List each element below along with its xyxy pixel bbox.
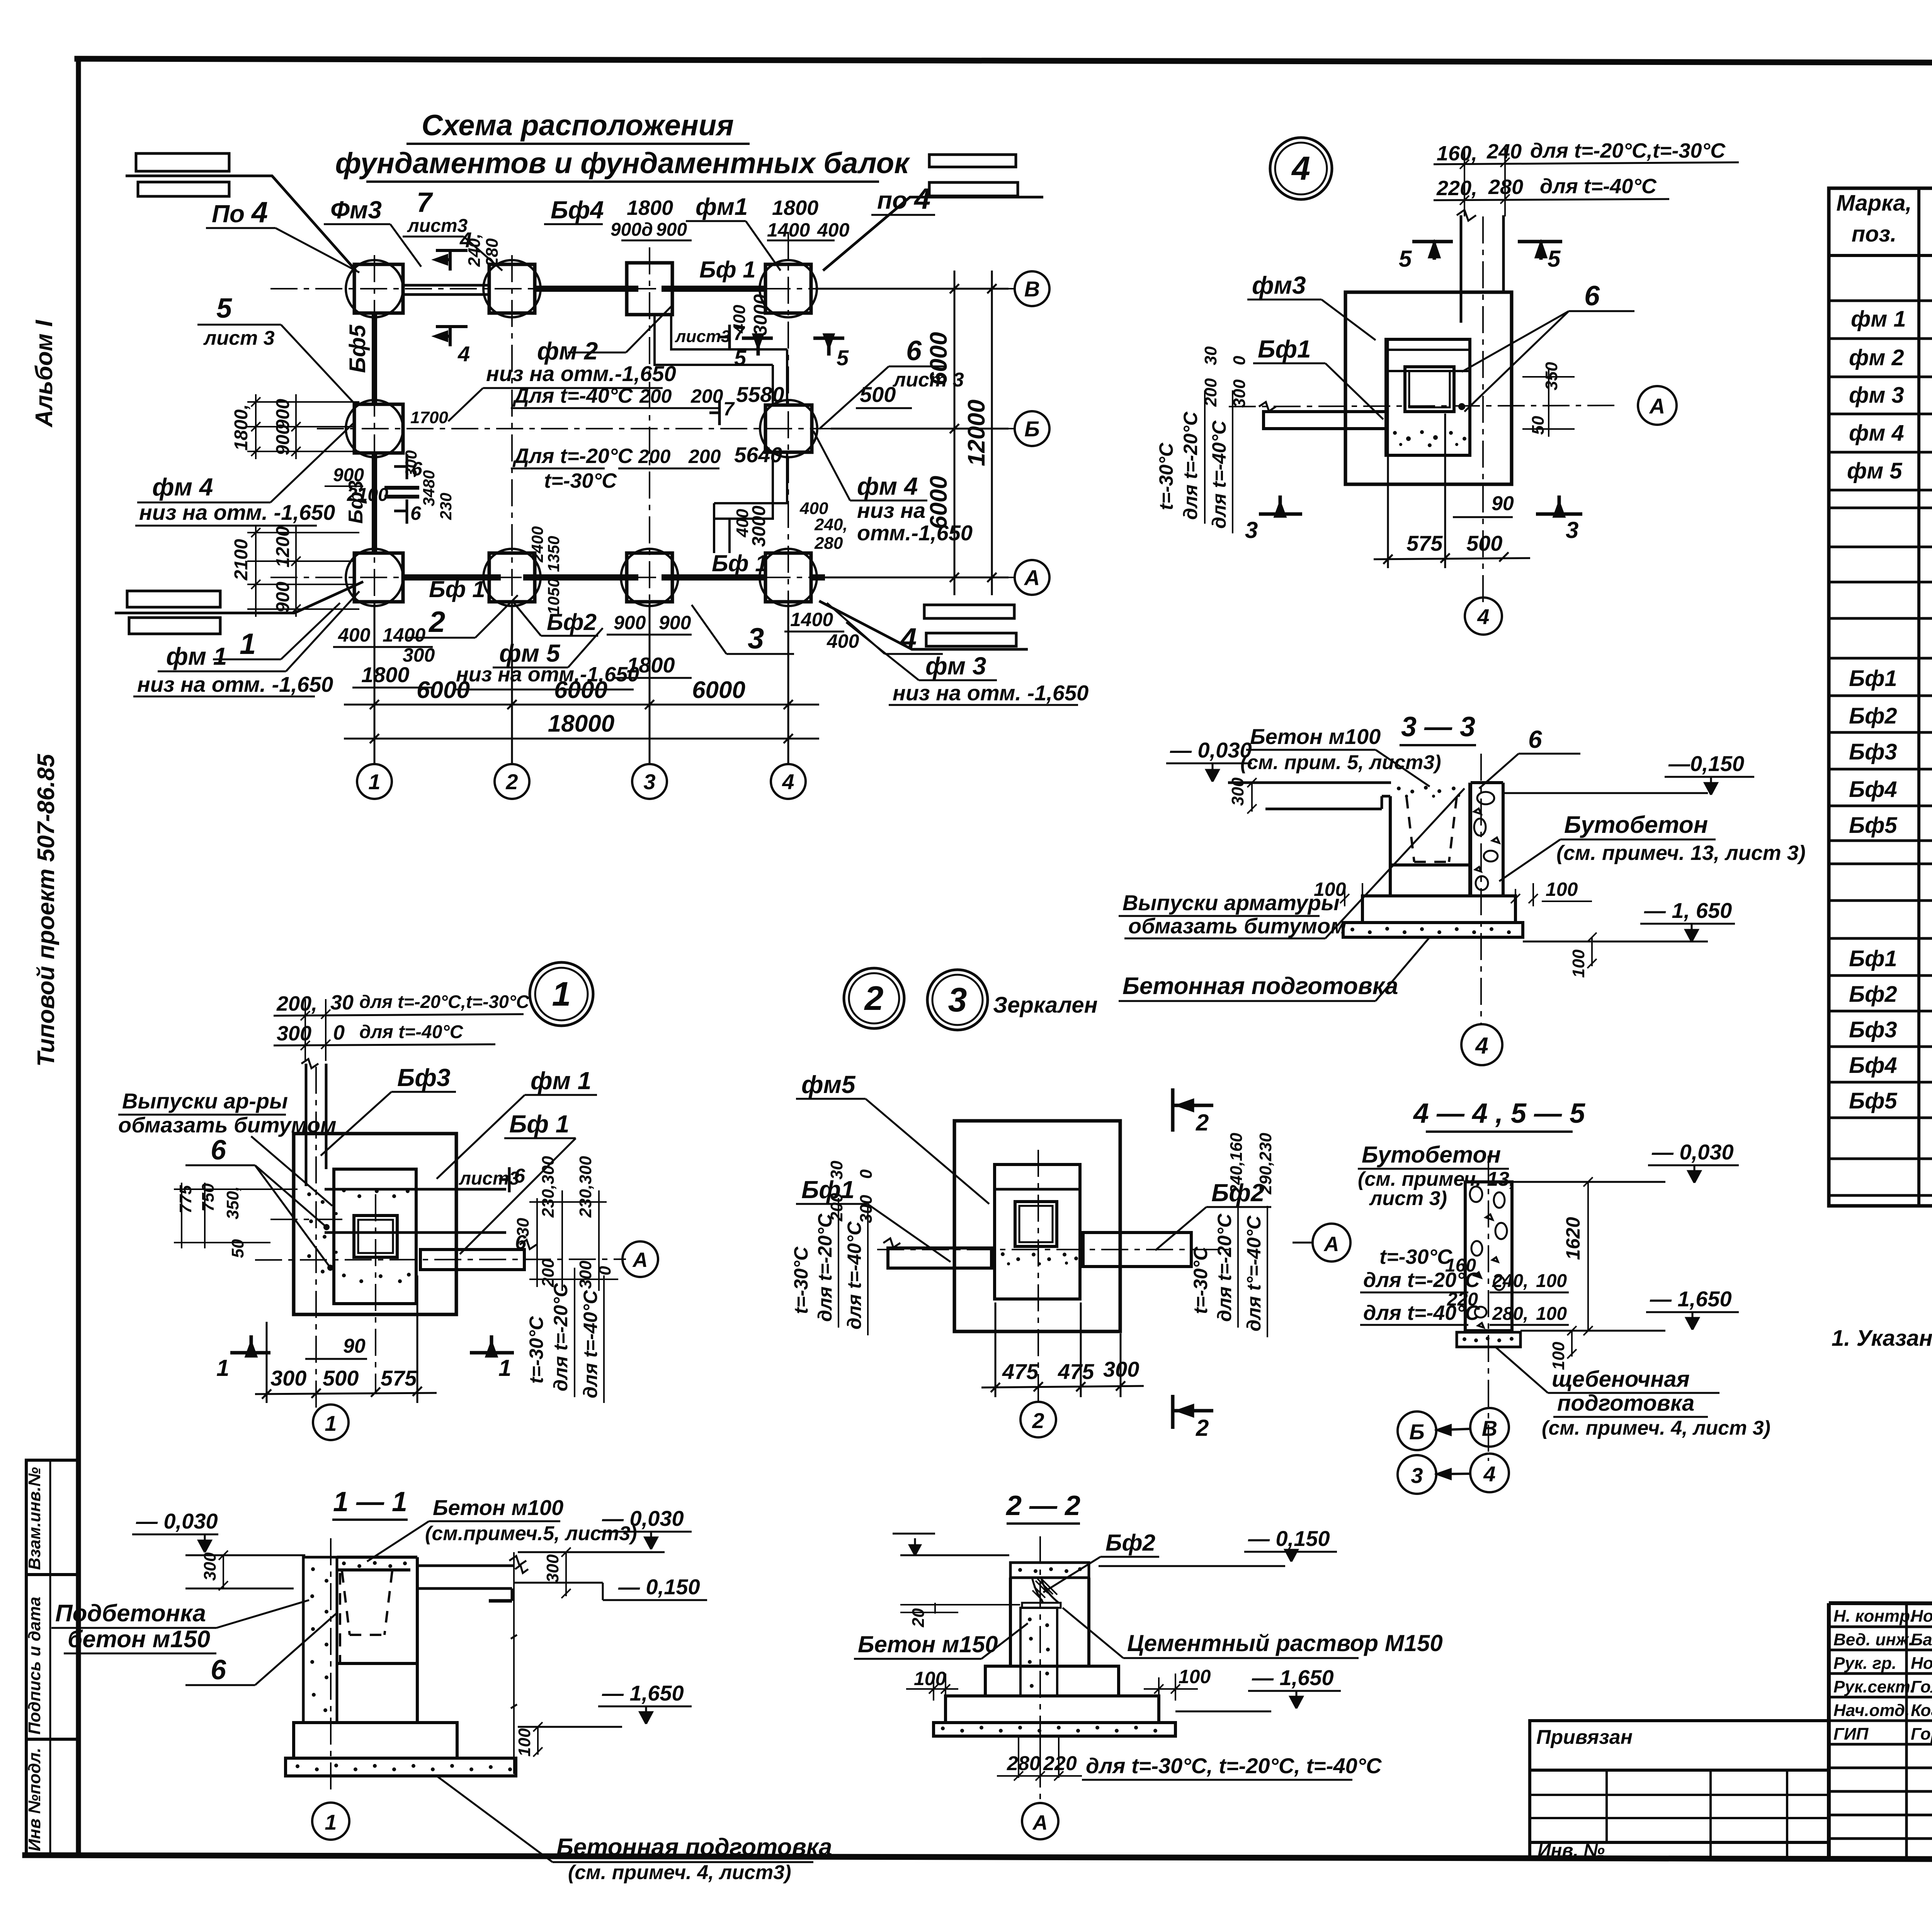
svg-text:Ногавицына: Ногавицына — [1911, 1607, 1932, 1626]
svg-text:100: 100 — [1569, 949, 1588, 978]
mini axis reference diagram — [1398, 1408, 1509, 1494]
rails symbol top-right — [823, 155, 1043, 271]
svg-text:4: 4 — [1291, 150, 1310, 187]
svg-text:4: 4 — [1475, 1033, 1488, 1059]
svg-text:220: 220 — [1043, 1752, 1077, 1775]
svg-text:для t=-20°C: для t=-20°C — [550, 1283, 571, 1391]
svg-text:Цементный раствор М150: Цементный раствор М150 — [1127, 1630, 1443, 1656]
svg-text:3: 3 — [1411, 1463, 1423, 1488]
svg-text:100: 100 — [914, 1668, 946, 1689]
svg-text:1800: 1800 — [772, 196, 818, 220]
uzel2 speckle band — [1001, 1252, 1078, 1265]
svg-text:t=-30°C: t=-30°C — [1155, 443, 1177, 510]
svg-text:для t=-20°C: для t=-20°C — [1214, 1214, 1235, 1322]
section mark 4 top — [436, 250, 468, 346]
svg-text:1800,: 1800, — [231, 404, 252, 451]
svg-text:Подпись и дата: Подпись и дата — [25, 1597, 44, 1735]
svg-text:для t=-40°C: для t=-40°C — [844, 1221, 865, 1330]
svg-text:фм 1: фм 1 — [531, 1067, 591, 1095]
svg-text:750: 750 — [199, 1183, 218, 1212]
svg-text:6: 6 — [906, 335, 922, 366]
section mark 6 pair near axis1 — [394, 454, 407, 524]
svg-text:2 — 2: 2 — 2 — [1005, 1490, 1080, 1521]
table body texts — [1847, 265, 1932, 1113]
butobeton blobs — [1474, 792, 1499, 890]
svg-text:900: 900 — [273, 582, 293, 613]
table column lines — [1917, 188, 1920, 1206]
svg-text:230: 230 — [437, 493, 455, 520]
svg-text:Бф4: Бф4 — [1849, 777, 1897, 802]
svg-text:Инв №подл.: Инв №подл. — [25, 1748, 44, 1851]
detail 4 bubble — [1270, 138, 1332, 199]
table outer border — [1829, 188, 1932, 1206]
table row lines — [1829, 300, 1932, 302]
svg-text:лист 3): лист 3) — [1369, 1187, 1447, 1210]
svg-text:Бф2: Бф2 — [1849, 703, 1897, 729]
uzel4 inner socket — [1386, 339, 1470, 455]
svg-text:5: 5 — [734, 346, 747, 370]
double tie lines between Б and А on axis1 — [384, 486, 419, 490]
svg-text:240,160: 240,160 — [1227, 1132, 1246, 1195]
svg-text:280: 280 — [1007, 1752, 1041, 1775]
svg-text:1050: 1050 — [544, 579, 563, 615]
footing pad — [1457, 1332, 1520, 1347]
svg-text:900: 900 — [333, 465, 364, 485]
svg-text:Бутобетон: Бутобетон — [1362, 1142, 1501, 1168]
svg-text:2100: 2100 — [347, 485, 388, 505]
rails symbol top-left — [126, 153, 356, 271]
svg-text:300: 300 — [543, 1554, 562, 1583]
svg-text:для t=-40°C: для t=-40°C — [1208, 421, 1230, 529]
svg-text:2: 2 — [428, 606, 445, 638]
svg-text:900: 900 — [659, 612, 691, 633]
svg-text:t=-30°C: t=-30°C — [526, 1316, 547, 1384]
svg-text:1 — 1: 1 — 1 — [333, 1486, 407, 1517]
svg-text:Выпуски ар-ры: Выпуски ар-ры — [122, 1089, 288, 1113]
svg-text:290,230: 290,230 — [1256, 1132, 1275, 1195]
svg-text:Нач.отд,: Нач.отд, — [1833, 1701, 1910, 1720]
svg-text:3: 3 — [948, 981, 967, 1019]
svg-text:А: А — [632, 1248, 648, 1272]
svg-text:В: В — [1482, 1416, 1497, 1440]
svg-text:30: 30 — [1201, 346, 1220, 365]
svg-text:лист 3: лист 3 — [892, 369, 964, 391]
section foundation body — [1343, 783, 1523, 937]
detail1 horizontal lines through — [325, 1188, 506, 1191]
svg-text:50: 50 — [1529, 416, 1548, 435]
svg-text:1800: 1800 — [361, 662, 410, 687]
svg-text:12000: 12000 — [963, 400, 990, 466]
svg-text:фм 1: фм 1 — [166, 642, 227, 670]
svg-text:— 1, 650: — 1, 650 — [1644, 898, 1732, 923]
svg-text:обмазать битумом: обмазать битумом — [118, 1113, 337, 1137]
svg-text:низ на отм. -1,650: низ на отм. -1,650 — [893, 681, 1088, 705]
detail1 column square — [354, 1216, 397, 1257]
svg-text:t=-30°C: t=-30°C — [1190, 1246, 1211, 1314]
svg-text:фм 4: фм 4 — [857, 472, 918, 500]
svg-text:Бф 1: Бф 1 — [429, 576, 485, 602]
signoff column dividers — [1905, 1603, 1908, 1859]
svg-text:t=-30°C: t=-30°C — [544, 469, 617, 492]
svg-text:7: 7 — [417, 187, 433, 218]
grid centerlines — [270, 232, 1015, 764]
svg-text:575: 575 — [1406, 531, 1443, 555]
svg-text:бетон м150: бетон м150 — [68, 1626, 210, 1653]
uzel4 bottom axis circle 4 — [1465, 598, 1502, 635]
detail1 speckle zone — [307, 1188, 411, 1283]
signoff captions — [1833, 1607, 1932, 1743]
svg-text:2: 2 — [1196, 1415, 1209, 1441]
svg-text:200: 200 — [638, 446, 671, 467]
svg-text:240: 240 — [1486, 140, 1522, 163]
beam cross-section top band — [1010, 1563, 1089, 1578]
svg-text:160: 160 — [1445, 1255, 1476, 1276]
uzel2 outer square — [954, 1121, 1120, 1331]
svg-text:Коган: Коган — [1911, 1701, 1932, 1720]
svg-text:1: 1 — [240, 628, 256, 661]
svg-text:6: 6 — [1584, 281, 1600, 312]
svg-text:900: 900 — [656, 220, 687, 240]
svg-text:Бф3: Бф3 — [397, 1064, 451, 1091]
svg-text:5580: 5580 — [736, 382, 784, 407]
svg-text:280: 280 — [483, 238, 502, 267]
svg-text:по 4: по 4 — [877, 182, 930, 215]
svg-text:Зеркален: Зеркален — [993, 993, 1098, 1018]
svg-text:300: 300 — [277, 1022, 311, 1045]
svg-text:100: 100 — [1546, 878, 1578, 900]
svg-text:1. Указания по устройству: 1. Указания по устройству фундаментов см… — [1832, 1326, 1932, 1351]
svg-text:0: 0 — [1230, 356, 1249, 365]
svg-text:6: 6 — [211, 1135, 226, 1166]
svg-text:Бф3: Бф3 — [1849, 739, 1897, 764]
svg-text:240,: 240, — [465, 233, 484, 267]
svg-text:3: 3 — [1566, 517, 1578, 543]
svg-text:лист3: лист3 — [407, 216, 468, 236]
title block outer top — [1829, 1603, 1932, 1605]
svg-text:6: 6 — [410, 502, 422, 524]
svg-text:1: 1 — [325, 1411, 337, 1435]
svg-text:для t=-20°C: для t=-20°C — [1180, 412, 1201, 520]
svg-text:Инв. №: Инв. № — [1537, 1840, 1605, 1861]
section 3-3 centerline + circle 4 — [1480, 754, 1482, 1024]
svg-text:— 1,650: — 1,650 — [1252, 1665, 1334, 1690]
svg-text:1: 1 — [325, 1810, 337, 1834]
svg-text:1: 1 — [216, 1355, 229, 1381]
left dim stack lower — [247, 525, 359, 617]
svg-text:200: 200 — [539, 1258, 558, 1287]
sec11 centerline — [330, 1538, 332, 1793]
sec11 bottom circle 1 — [312, 1803, 349, 1840]
foundation beams thick — [374, 285, 825, 577]
svg-text:Бф5: Бф5 — [345, 325, 370, 373]
butobeton column — [1471, 783, 1503, 896]
sec22 centerline — [1039, 1536, 1041, 1799]
svg-text:1400: 1400 — [767, 219, 810, 241]
svg-text:100: 100 — [1536, 1271, 1567, 1291]
svg-text:фм 4: фм 4 — [152, 473, 213, 501]
svg-text:Выпуски арматуры: Выпуски арматуры — [1122, 890, 1340, 915]
svg-text:3000: 3000 — [749, 506, 769, 547]
svg-text:200: 200 — [1201, 378, 1220, 407]
svg-text:Баранова: Баранова — [1911, 1630, 1932, 1649]
sec22 bottom circle A — [1022, 1803, 1058, 1839]
dashed stakan — [1406, 797, 1457, 862]
detail1 right axis circle A — [622, 1241, 658, 1277]
svg-text:200: 200 — [688, 446, 721, 467]
svg-text:для t=-20°C,t=-30°C: для t=-20°C,t=-30°C — [359, 991, 530, 1012]
svg-text:6: 6 — [211, 1655, 226, 1685]
svg-text:900: 900 — [614, 612, 646, 633]
svg-text:Ногавицына: Ногавицына — [1911, 1654, 1932, 1673]
svg-text:фм 5: фм 5 — [1847, 458, 1902, 484]
svg-text:—0,150: —0,150 — [1668, 751, 1744, 776]
svg-text:7: 7 — [723, 398, 735, 420]
svg-text:230,300: 230,300 — [539, 1156, 558, 1218]
svg-text:Н. контр.: Н. контр. — [1833, 1607, 1915, 1626]
svg-text:18000: 18000 — [548, 710, 614, 737]
svg-text:6: 6 — [412, 458, 423, 480]
table header bottom — [1829, 254, 1932, 257]
svg-text:200: 200 — [639, 385, 672, 407]
svg-text:Бетонная подготовка: Бетонная подготовка — [1122, 973, 1398, 999]
butobeton pillar — [1465, 1182, 1512, 1331]
svg-text:100: 100 — [515, 1728, 534, 1757]
svg-text:3 — 3: 3 — 3 — [1401, 712, 1475, 742]
svg-text:1350: 1350 — [544, 536, 563, 572]
plan title underline 2 — [366, 180, 879, 183]
svg-text:900д: 900д — [611, 220, 653, 240]
svg-text:Бф2: Бф2 — [1849, 982, 1897, 1007]
svg-text:30: 30 — [330, 991, 354, 1014]
svg-text:2: 2 — [864, 979, 884, 1017]
uzel4 section marks 3 — [1259, 495, 1582, 516]
bubbles 2 and 3 — [844, 968, 904, 1028]
svg-text:Рук. гр.: Рук. гр. — [1833, 1654, 1896, 1673]
uzel4 concrete speckle band — [1393, 430, 1466, 447]
svg-text:1: 1 — [368, 770, 380, 794]
svg-text:Фм3: Фм3 — [330, 196, 382, 224]
svg-text:фм3: фм3 — [1252, 271, 1306, 299]
detail1 outer square — [294, 1134, 456, 1314]
svg-text:3: 3 — [748, 622, 764, 655]
svg-text:300: 300 — [576, 1260, 595, 1289]
svg-text:2100: 2100 — [231, 539, 252, 581]
svg-text:— 0,150: — 0,150 — [1248, 1526, 1330, 1551]
uzel4 centerlines — [1229, 216, 1619, 603]
svg-text:(см. примеч. 13, лист 3): (см. примеч. 13, лист 3) — [1556, 841, 1806, 865]
svg-text:280: 280 — [814, 534, 843, 553]
svg-text:А: А — [1024, 565, 1040, 590]
svg-text:Альбом I: Альбом I — [31, 319, 58, 428]
svg-text:(см. примеч. 4, лист3): (см. примеч. 4, лист3) — [568, 1861, 791, 1884]
svg-text:5640: 5640 — [734, 443, 782, 467]
svg-text:900: 900 — [273, 424, 293, 455]
svg-text:4: 4 — [782, 770, 794, 794]
svg-text:фм 4: фм 4 — [1849, 421, 1904, 446]
4-4 centerline — [1488, 1156, 1489, 1461]
svg-text:4: 4 — [1483, 1462, 1495, 1486]
uzel2 centerlines — [877, 1150, 1229, 1407]
svg-text:Вед. инж.: Вед. инж. — [1833, 1630, 1913, 1649]
sheet bottom frame line — [25, 1855, 1932, 1861]
sec11 beam to right — [417, 1556, 526, 1601]
foundation steps — [934, 1666, 1175, 1736]
svg-text:240,: 240, — [814, 515, 848, 534]
svg-text:30: 30 — [514, 1218, 532, 1237]
svg-text:100: 100 — [1179, 1666, 1211, 1687]
svg-text:t=-30°C: t=-30°C — [790, 1246, 812, 1314]
svg-text:160,: 160, — [1437, 142, 1477, 165]
svg-text:Бетон м100: Бетон м100 — [1250, 724, 1381, 749]
svg-text:поз.: поз. — [1852, 221, 1897, 247]
svg-text:(см. прим. 5, лист3): (см. прим. 5, лист3) — [1240, 751, 1441, 774]
svg-text:фундаментов и фундаментных б: фундаментов и фундаментных балок — [335, 147, 910, 180]
svg-text:Бф2: Бф2 — [1105, 1530, 1155, 1556]
svg-text:400: 400 — [730, 305, 749, 334]
detail 1 bubble — [530, 962, 593, 1026]
svg-text:Бф4: Бф4 — [551, 196, 604, 224]
svg-text:500: 500 — [323, 1366, 359, 1390]
svg-text:90: 90 — [343, 1335, 366, 1357]
svg-text:20: 20 — [909, 1608, 928, 1628]
svg-text:4: 4 — [457, 342, 470, 366]
svg-text:5: 5 — [1548, 246, 1561, 272]
svg-text:350,: 350, — [223, 1186, 242, 1219]
detail1 column strip above — [301, 1059, 326, 1186]
svg-text:6: 6 — [514, 1165, 526, 1187]
svg-text:Бф 1: Бф 1 — [712, 550, 768, 576]
svg-text:3: 3 — [643, 770, 655, 794]
-0.150 level line right of column — [1503, 792, 1708, 794]
svg-text:240,: 240, — [1492, 1271, 1528, 1291]
svg-text:Типовой проект 507-86.85: Типовой проект 507-86.85 — [33, 753, 60, 1067]
svg-text:низ на: низ на — [857, 498, 925, 523]
svg-text:2400: 2400 — [528, 526, 546, 563]
svg-text:— 0,030: — 0,030 — [602, 1506, 684, 1531]
cement mortar thin band — [1022, 1603, 1061, 1608]
svg-text:300: 300 — [857, 1195, 876, 1223]
column strip above — [1457, 210, 1503, 323]
svg-text:300: 300 — [1230, 379, 1249, 408]
svg-text:Бетон м100: Бетон м100 — [433, 1495, 563, 1520]
detail 4 dim verticals — [1460, 147, 1510, 216]
svg-text:Голод: Голод — [1911, 1677, 1932, 1696]
svg-text:отм.-1,650: отм.-1,650 — [857, 521, 973, 545]
svg-text:5: 5 — [216, 293, 232, 324]
svg-text:низ на отм. -1,650: низ на отм. -1,650 — [139, 500, 335, 524]
svg-text:лист 3: лист 3 — [203, 327, 275, 349]
floor slab left — [1228, 783, 1391, 809]
svg-text:500: 500 — [860, 382, 896, 407]
speckled top band — [1397, 786, 1460, 798]
svg-text:230,300: 230,300 — [576, 1156, 595, 1218]
svg-text:300: 300 — [201, 1552, 219, 1581]
svg-text:1700: 1700 — [410, 408, 448, 427]
annex block Привязан — [1530, 1721, 1829, 1859]
sec11 z mark — [515, 1565, 528, 1573]
uzel2 beam right (Бф2 wider) — [1083, 1233, 1191, 1267]
svg-text:А: А — [1032, 1811, 1048, 1834]
svg-text:щебеночная: щебеночная — [1552, 1367, 1690, 1392]
uzel4 beam from left — [1259, 402, 1386, 429]
interior wall lines (t-variant contours) — [655, 315, 787, 553]
uzel2 column square — [1015, 1202, 1057, 1246]
svg-text:Бетонная подготовка: Бетонная подготовка — [556, 1834, 832, 1861]
section marks 5 — [1412, 242, 1562, 260]
svg-text:2: 2 — [1196, 1110, 1209, 1136]
bedding speckles — [1350, 927, 1511, 934]
detail1 inner square — [334, 1169, 416, 1304]
sheet top frame line — [77, 59, 1932, 64]
svg-text:400: 400 — [827, 630, 859, 652]
sec11 bedding speckles — [296, 1764, 512, 1771]
svg-text:5: 5 — [1399, 246, 1412, 272]
svg-text:475: 475 — [1058, 1359, 1094, 1384]
left margin attachment boxes — [26, 1460, 78, 1856]
svg-text:обмазать битумом: обмазать битумом — [1128, 914, 1347, 938]
svg-text:В: В — [1024, 277, 1040, 301]
svg-text:Б: Б — [1024, 417, 1040, 441]
svg-text:Бф 1: Бф 1 — [509, 1110, 569, 1138]
svg-text:0: 0 — [857, 1169, 876, 1179]
svg-text:ГИП: ГИП — [1833, 1725, 1869, 1743]
svg-text:фм5: фм5 — [801, 1071, 856, 1098]
svg-text:0: 0 — [333, 1021, 345, 1044]
svg-text:6: 6 — [1528, 725, 1542, 753]
svg-text:А: А — [1323, 1233, 1339, 1256]
svg-text:низ на отм. -1,650: низ на отм. -1,650 — [137, 672, 333, 696]
svg-text:подготовка: подготовка — [1557, 1391, 1694, 1416]
svg-text:Гороховский: Гороховский — [1911, 1725, 1932, 1743]
svg-text:Бф5: Бф5 — [1849, 1088, 1897, 1113]
svg-text:Привязан: Привязан — [1536, 1726, 1633, 1748]
svg-text:220: 220 — [1447, 1289, 1478, 1310]
table header texts — [1836, 191, 1932, 247]
svg-text:575: 575 — [381, 1366, 417, 1390]
svg-text:— 1,650: — 1,650 — [602, 1681, 684, 1705]
svg-text:2: 2 — [1032, 1408, 1044, 1433]
svg-text:1: 1 — [552, 975, 571, 1013]
svg-text:6000: 6000 — [692, 677, 745, 703]
svg-text:1200: 1200 — [273, 526, 293, 567]
280 220 dims — [997, 1736, 1082, 1786]
uzel2 bottom circle 2 — [1020, 1402, 1056, 1437]
svg-text:500: 500 — [1466, 531, 1502, 555]
svg-text:Марка,: Марка, — [1836, 191, 1912, 216]
svg-text:— 0,030: — 0,030 — [1651, 1140, 1734, 1164]
svg-text:Б: Б — [1409, 1420, 1425, 1444]
svg-text:фм 3: фм 3 — [1849, 383, 1904, 408]
signoff row lines — [1829, 1626, 1932, 1628]
svg-text:Бф1: Бф1 — [1849, 666, 1897, 691]
svg-text:фм 1: фм 1 — [1851, 306, 1906, 332]
rails symbol bottom-left — [115, 582, 363, 634]
svg-text:Для t=-20°C: Для t=-20°C — [512, 444, 633, 468]
uzel4 right A axis — [1638, 386, 1677, 425]
svg-text:50: 50 — [228, 1239, 247, 1258]
svg-text:1400: 1400 — [383, 624, 425, 646]
svg-text:300: 300 — [1228, 777, 1247, 806]
sheet left frame line — [76, 59, 81, 1855]
left level marks of sec2-2 (from uzel2 dims) — [900, 1554, 1009, 1556]
svg-text:3480: 3480 — [420, 470, 438, 506]
sec11 top speckle band — [342, 1561, 407, 1568]
sec11 foundation body — [286, 1557, 516, 1776]
svg-text:2: 2 — [505, 770, 518, 794]
svg-text:фм1: фм1 — [696, 194, 748, 220]
svg-text:475: 475 — [1002, 1359, 1039, 1384]
left dim stack upper — [247, 394, 359, 459]
